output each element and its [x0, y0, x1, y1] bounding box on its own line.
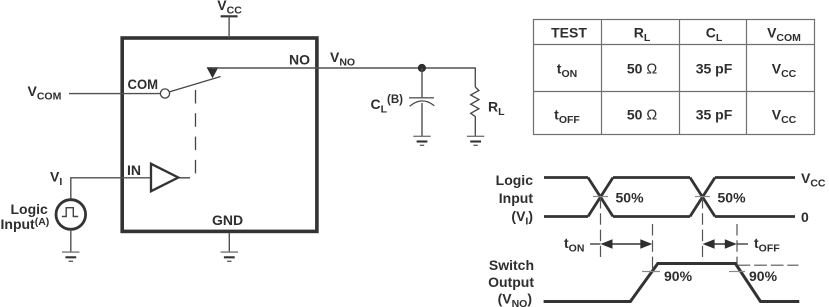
switch arrow head S1: [207, 67, 219, 78]
wire GND stem: [228, 233, 230, 252]
svg-text:RL: RL: [634, 25, 651, 45]
dashed marker at rise 90 percent: [652, 224, 654, 272]
svg-text:Input: Input: [499, 190, 534, 206]
svg-text:NO: NO: [289, 52, 310, 68]
ground under source V1: [62, 252, 79, 261]
50 percent tick crossing 2: [695, 196, 710, 198]
buffer U1a: [151, 164, 178, 191]
svg-text:VCOM: VCOM: [28, 83, 62, 103]
svg-text:50%: 50%: [616, 190, 645, 206]
resistor RL label: [488, 99, 505, 119]
pin label IN: [127, 162, 141, 178]
Vcc supply label: [217, 0, 242, 17]
dashed marker at second 50 percent: [702, 197, 704, 257]
svg-text:Input(A): Input(A): [1, 216, 50, 232]
svg-text:Switch: Switch: [489, 257, 534, 273]
tON measurement arrow: [601, 239, 653, 248]
90 percent tick falling edge: [729, 271, 745, 273]
svg-text:90%: 90%: [664, 268, 693, 284]
svg-text:tOFF: tOFF: [554, 107, 580, 127]
wire RL corner: [474, 68, 476, 87]
waveform label Logic Input (VI): [496, 172, 534, 227]
svg-text:GND: GND: [212, 212, 243, 228]
level label Vcc right: [801, 170, 826, 190]
ground under GND pin: [221, 252, 238, 261]
switch blade: [169, 77, 220, 92]
svg-text:tON: tON: [557, 61, 577, 81]
svg-text:VCC: VCC: [217, 0, 242, 17]
dashed control link: [179, 90, 196, 178]
table header CL: [706, 25, 723, 45]
table row tOFF: [554, 107, 797, 127]
svg-text:RL: RL: [488, 99, 505, 119]
ground under CL: [413, 136, 430, 145]
resistor RL: [471, 87, 479, 136]
wire NO output: [212, 67, 476, 69]
svg-text:Logic: Logic: [496, 172, 534, 188]
capacitor CL: [409, 98, 434, 107]
svg-text:Logic: Logic: [11, 201, 49, 217]
switch pole contact circle: [160, 89, 169, 98]
wire CL stem top: [421, 68, 423, 98]
label 50 percent first: [616, 190, 645, 206]
svg-text:50 Ω: 50 Ω: [627, 107, 657, 124]
dashed marker at fall 90 percent: [736, 224, 738, 272]
tOFF measurement arrow: [703, 239, 737, 248]
svg-text:CL: CL: [706, 25, 723, 45]
90 percent tick rising edge: [642, 271, 660, 273]
wire Vcc stem: [228, 16, 230, 38]
level label 0 right: [801, 209, 809, 225]
ground under RL: [467, 136, 484, 145]
label 90 percent second: [749, 268, 778, 284]
waveform label Switch Output (VNO): [488, 257, 534, 307]
table header Vcom: [767, 25, 801, 45]
svg-text:IN: IN: [127, 162, 141, 178]
pin label GND: [212, 212, 243, 228]
wire CL stem bottom: [421, 103, 423, 136]
label tOFF: [737, 235, 780, 255]
label 90 percent first: [664, 268, 693, 284]
capacitor CL label: [371, 94, 404, 116]
pin label COM: [128, 76, 159, 92]
svg-text:tON: tON: [564, 235, 584, 255]
dashed 90 percent level line: [738, 264, 799, 266]
svg-text:tOFF: tOFF: [754, 235, 780, 255]
svg-text:COM: COM: [128, 76, 159, 92]
svg-text:VI: VI: [50, 169, 62, 189]
source V1 label: [1, 201, 50, 232]
node Vi label: [50, 169, 62, 189]
wire Vi to IN pin: [71, 178, 151, 200]
label tON: [564, 235, 601, 255]
node Vno label: [330, 49, 355, 69]
table header RL: [634, 25, 651, 45]
50 percent tick crossing 1: [593, 196, 608, 198]
test conditions table: [534, 20, 815, 135]
svg-text:35 pF: 35 pF: [696, 61, 733, 77]
pin label NO: [289, 52, 310, 68]
junction node A: [418, 64, 426, 72]
svg-text:90%: 90%: [749, 268, 778, 284]
source V1 pulse generator: [56, 200, 86, 230]
logic input waveform trace: [544, 178, 795, 217]
DUT box U1: [122, 38, 317, 231]
wire source to ground: [70, 229, 72, 252]
label 50 percent second: [718, 190, 747, 206]
svg-text:35 pF: 35 pF: [696, 107, 733, 123]
svg-text:VCC: VCC: [801, 170, 826, 190]
Vcc supply bar: [221, 15, 238, 17]
svg-text:Output: Output: [488, 274, 534, 290]
svg-text:VCC: VCC: [772, 107, 797, 127]
svg-text:VCC: VCC: [772, 61, 797, 81]
svg-text:TEST: TEST: [551, 25, 587, 41]
table header TEST: [551, 25, 587, 41]
svg-text:0: 0: [801, 209, 809, 225]
svg-text:50 Ω: 50 Ω: [627, 61, 657, 78]
svg-text:VNO: VNO: [330, 49, 355, 69]
svg-text:CL(B): CL(B): [371, 94, 404, 116]
svg-text:VCOM: VCOM: [767, 25, 801, 45]
table row tON: [557, 61, 797, 81]
node Vcom label: [28, 83, 62, 103]
dashed marker at first 50 percent: [600, 197, 602, 257]
svg-text:(VI): (VI): [511, 208, 533, 228]
switch output waveform trace: [544, 264, 800, 302]
wire Vcom to COM pin: [69, 93, 160, 95]
svg-text:50%: 50%: [718, 190, 747, 206]
svg-text:(VNO): (VNO): [498, 290, 532, 307]
